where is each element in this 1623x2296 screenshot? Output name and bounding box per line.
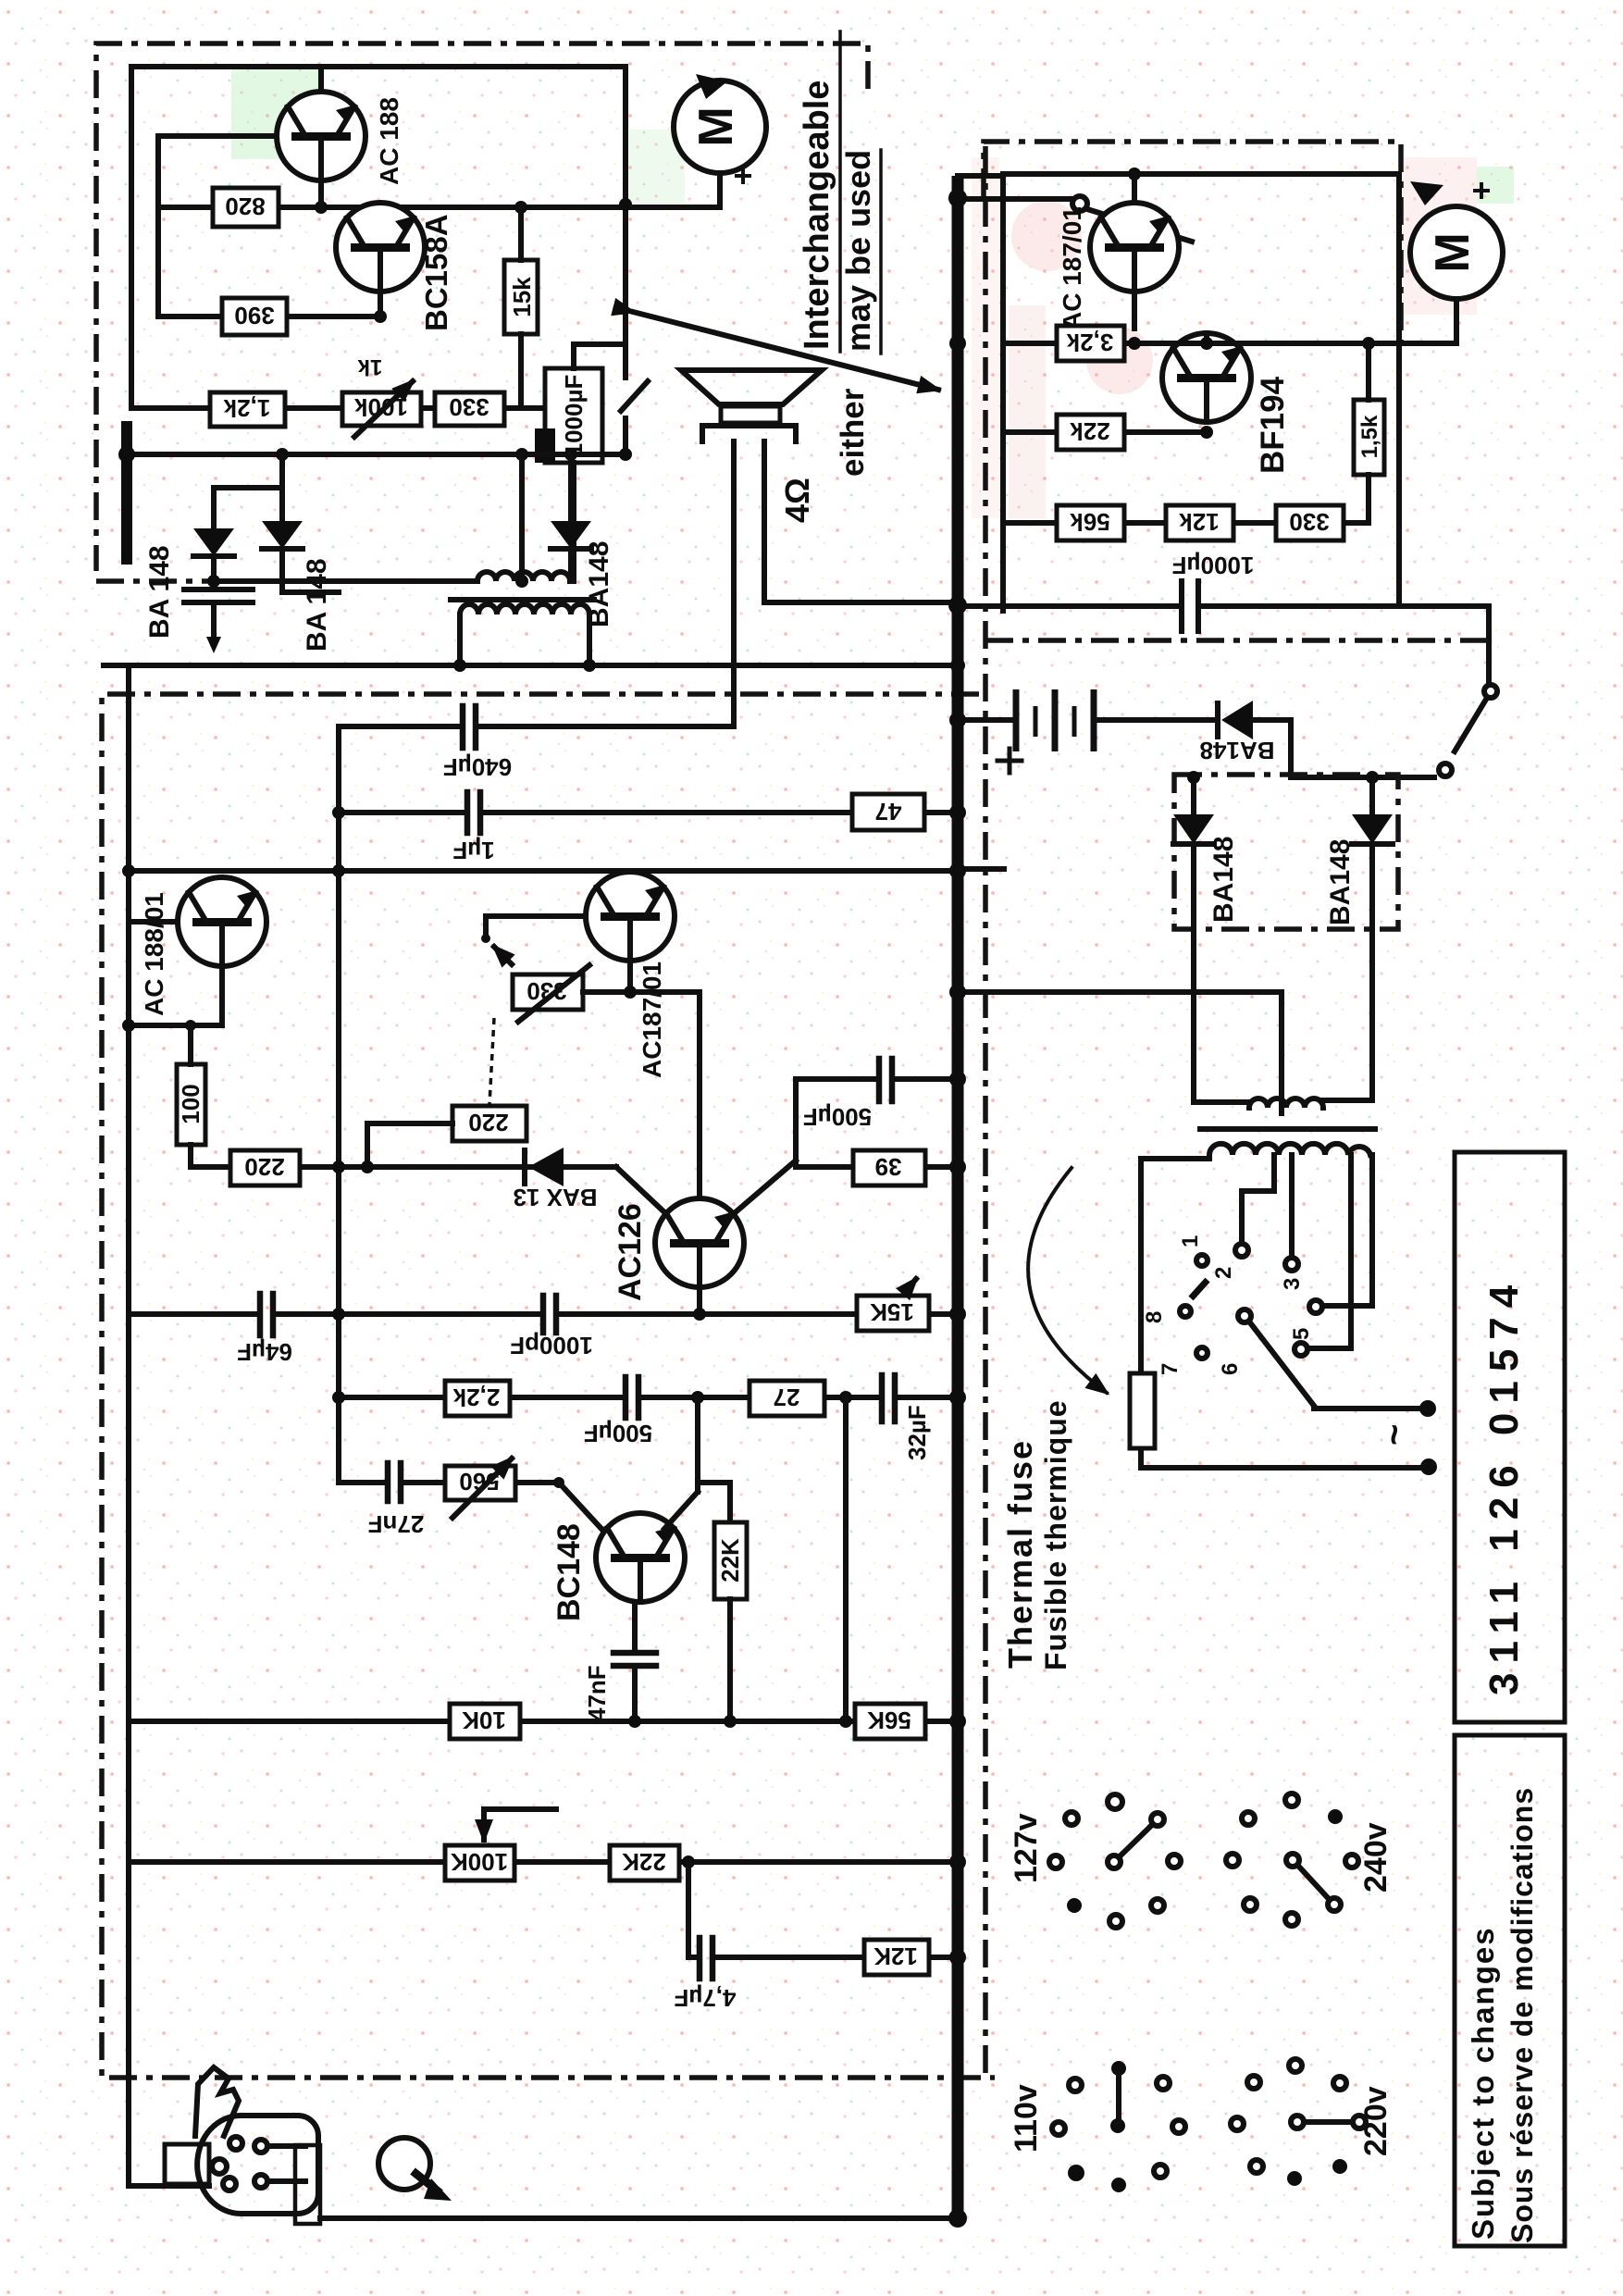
selector link 1-8 [1191, 1280, 1208, 1298]
svg-text:56k: 56k [1070, 508, 1110, 536]
wire: row y=1261 [191, 1160, 616, 1173]
label AC187/01 (T3) [1058, 206, 1086, 330]
wire: row y=1261 right + resistor 39 [796, 1164, 953, 1170]
selector contact 5 [1289, 1328, 1314, 1356]
DIN microphone connector [129, 2067, 320, 2224]
wire: row y=1860 [129, 1715, 953, 1728]
wire: bus to transformer centre tap y=1072 [962, 992, 1282, 1113]
text: Fusible thermique [1039, 1399, 1072, 1670]
text: either [835, 388, 871, 477]
svg-text:64µF: 64µF [237, 1338, 292, 1366]
svg-text:1000pF: 1000pF [510, 1332, 593, 1359]
dash-dot box around charge diodes [1174, 775, 1398, 929]
svg-text:640µF: 640µF [443, 753, 512, 781]
svg-text:7: 7 [1158, 1363, 1183, 1375]
thermal fuse pointer arc [1028, 1168, 1107, 1393]
dash-dot border: top-right motor block [984, 142, 1401, 341]
resistor 27 [750, 1381, 824, 1416]
svg-text:12k: 12k [1179, 508, 1220, 536]
diode BAX13 [513, 1148, 597, 1211]
svg-text:330: 330 [1289, 508, 1329, 536]
volume control (pot circle) [378, 2138, 452, 2201]
wire: top link of diodes y=527 [214, 454, 282, 488]
capacitor 27nF [368, 1463, 425, 1538]
svg-text:100k: 100k [354, 393, 408, 421]
svg-text:BA 148: BA 148 [302, 558, 332, 652]
label AC187/01 (T6) [638, 962, 666, 1078]
transistor T1 AC188 [277, 67, 365, 207]
wire: AC126 collector up [731, 1079, 796, 1216]
selector contact 2 [1211, 1244, 1248, 1279]
capacitor 47nF [583, 1602, 656, 1721]
diode BA148 D3 [551, 454, 591, 578]
mains transformer core [1200, 1126, 1375, 1132]
svg-text:BF194: BF194 [1255, 376, 1291, 474]
record/play switch lever [1439, 685, 1497, 776]
label BC148 (T8) [551, 1523, 587, 1621]
resistor 10K [450, 1704, 520, 1739]
svg-text:15k: 15k [508, 277, 536, 317]
label 4 ohm [778, 478, 816, 523]
label AC188/01 (T5) [140, 892, 168, 1016]
transformer (motor governor coil) [451, 572, 594, 665]
text: may be used [839, 150, 881, 354]
voltage legend 110v [1009, 2061, 1185, 2192]
wire: diag to AC126 base [616, 1167, 663, 1210]
diode BA148 D2 [262, 488, 339, 592]
svg-text:BA148: BA148 [1200, 737, 1275, 764]
voltage legend 220v [1231, 2059, 1394, 2186]
resistor 12K (amp) [864, 1940, 929, 1975]
resistor 1,2k [210, 392, 285, 427]
resistor 1,5k vertical [1354, 343, 1384, 523]
label BA148 (D5) [1208, 837, 1239, 923]
transistor T2 BC158A [336, 203, 425, 316]
svg-text:Fusible thermique: Fusible thermique [1039, 1399, 1072, 1670]
wire: y=1108 emitter row [122, 1019, 222, 1032]
capacitor 500uF (a) [803, 1059, 892, 1131]
wire: row y=878 to bus [332, 806, 953, 819]
box: 3111 126 01574 [1455, 1152, 1565, 1722]
label BA148 (D3) [584, 541, 614, 627]
svg-text:AC 187/01: AC 187/01 [1058, 206, 1086, 330]
wire: diode to switch wire [1291, 720, 1434, 777]
resistor 22K vertical [714, 1522, 747, 1721]
svg-text:22K: 22K [622, 1848, 666, 1876]
wire: x=744 vertical [686, 1862, 691, 1957]
trimmer arrow + dot [481, 916, 586, 964]
wire: row y=224 (820 row to motor) [158, 201, 720, 214]
svg-text:2: 2 [1211, 1267, 1236, 1279]
resistor 820 [213, 188, 279, 227]
svg-text:1k: 1k [357, 354, 382, 379]
text: Interchangeable [798, 31, 840, 352]
resistor 2,2k [445, 1381, 510, 1416]
svg-text:BA148: BA148 [1208, 837, 1239, 923]
svg-text:240v: 240v [1358, 1822, 1394, 1893]
svg-text:27: 27 [774, 1384, 800, 1411]
svg-text:BC148: BC148 [551, 1523, 587, 1621]
motor M1 [674, 74, 766, 205]
svg-text:390: 390 [234, 302, 274, 329]
resistor 56K (amp) [855, 1704, 925, 1739]
svg-text:56K: 56K [867, 1706, 911, 1734]
capacitor 64uF [237, 1294, 292, 1366]
resistor 3,2k [1057, 326, 1124, 361]
selector contact 6 [1218, 1309, 1251, 1375]
label AC188 (T1) [375, 97, 403, 185]
label BA148 (D6) [1325, 839, 1356, 925]
svg-text:BAX 13: BAX 13 [513, 1184, 597, 1211]
svg-text:BA148: BA148 [1325, 839, 1356, 925]
diode BA148 D6 [1352, 771, 1393, 929]
svg-text:1000µF: 1000µF [1172, 552, 1255, 579]
wire: diode legs down to mains transformer [1194, 929, 1372, 1102]
voltage selector block border + taps [1141, 1155, 1372, 1468]
wire: row y=371 (to motor M2) [1003, 337, 1456, 350]
interchange arrow (double headed) [633, 312, 938, 390]
svg-text:1,2k: 1,2k [223, 394, 270, 422]
resistor 47 [852, 794, 924, 830]
solid border: top-left block (left + top edge) [131, 67, 626, 408]
svg-text:15K: 15K [870, 1298, 914, 1326]
wire: row y=565 [1003, 520, 1369, 526]
svg-text:Thermal fuse: Thermal fuse [1001, 1439, 1039, 1669]
svg-text:4Ω: 4Ω [778, 478, 816, 523]
dash-dot border: bottom of top-right motor block [985, 638, 1490, 643]
wire: x=914 vertical [843, 1397, 849, 1721]
svg-text:~: ~ [1374, 1424, 1415, 1446]
dash-dot separator x=1065 [983, 146, 988, 2078]
resistor 12k [1166, 505, 1233, 540]
resistor 220 (b) [367, 1106, 527, 1167]
capacitor 1000pF [510, 1296, 593, 1359]
wire: top rail y=188 inside right block [1128, 168, 1141, 180]
svg-text:6: 6 [1218, 1363, 1243, 1375]
capacitor 1000uF (motor block) [1172, 552, 1255, 631]
svg-text:Subject to changes: Subject to changes [1466, 1926, 1500, 2240]
wire: row y=342 (390 row) [158, 310, 387, 323]
capacitor 32uF [882, 1375, 931, 1460]
capacitor 4,7uF [674, 1938, 736, 2012]
speaker 4ohm [681, 370, 953, 726]
wire: row y=2012 [129, 1855, 953, 1868]
wire: long rail y=719 [104, 659, 953, 672]
svg-text:22k: 22k [1070, 417, 1110, 445]
resistor 330 (motor block) [1276, 505, 1344, 540]
resistor 56k [1057, 505, 1124, 540]
battery [962, 689, 1214, 773]
wire: vertical x=366 [336, 726, 341, 1483]
resistor 22K (b amp) [610, 1845, 679, 1880]
thermal fuse [1130, 1373, 1155, 1448]
box: subject to changes [1455, 1735, 1565, 2246]
svg-text:4,7µF: 4,7µF [674, 1984, 736, 2012]
svg-text:1000µF: 1000µF [560, 375, 588, 457]
svg-text:3111 126 01574: 3111 126 01574 [1481, 1276, 1527, 1695]
wire: bottom rail y=2397 [320, 2215, 953, 2221]
svg-text:22K: 22K [716, 1538, 744, 1582]
resistor 390 [222, 298, 287, 335]
svg-text:47: 47 [875, 798, 902, 825]
svg-text:100K: 100K [451, 1848, 508, 1876]
potentiometer 100k (bottom row) [342, 354, 421, 437]
voltage legend 240v [1226, 1793, 1394, 1926]
wire: row y=1420 [129, 1308, 953, 1321]
feedback arrow into 100K [484, 1809, 556, 1840]
svg-text:100: 100 [177, 1084, 204, 1123]
wire: rail y=628 to oscillator coil [207, 575, 528, 588]
wire: to mains terminal (upper) [1314, 1400, 1436, 1417]
diode BA148 D5 [1173, 771, 1214, 929]
resistor 330 (top-left block) [435, 392, 504, 426]
selector contact 7 [1158, 1347, 1208, 1375]
svg-text:5: 5 [1289, 1328, 1314, 1340]
svg-text:AC 188/01: AC 188/01 [140, 892, 168, 1016]
dash-dot border: amplifier block [102, 694, 995, 2078]
svg-text:M: M [689, 106, 743, 146]
label AC126 (T7) [613, 1203, 648, 1301]
wire: bus to record switch (y=215) with contact [962, 196, 1192, 242]
transistor T7 AC126 [655, 1198, 744, 1287]
potentiometer 100K (volume) [445, 1845, 514, 1880]
capacitor 1000uF (electrolytic, top-left block) [535, 344, 626, 581]
diode BA148 D1 [184, 488, 253, 653]
svg-text:2,2k: 2,2k [452, 1384, 500, 1411]
diode BA148 D4 (horizontal) [1200, 701, 1291, 764]
selector lever [1249, 1322, 1314, 1406]
wire: row y=2115 [688, 1955, 953, 1960]
svg-text:BC158A: BC158A [419, 214, 453, 331]
selector contact 8 [1142, 1306, 1191, 1323]
resistor 100 vertical [177, 1025, 205, 1167]
wire: left rail x=139 [126, 665, 131, 2186]
transistor T8 BC148 [596, 1513, 685, 1602]
svg-text:12K: 12K [873, 1942, 918, 1970]
potentiometer 330 (amp) [513, 965, 589, 1022]
resistor 220 (a) [230, 1150, 300, 1185]
selector contact 1 [1178, 1235, 1208, 1266]
svg-text:BA 148: BA 148 [144, 545, 175, 639]
svg-text:3: 3 [1280, 1278, 1305, 1290]
svg-text:may be used: may be used [839, 150, 877, 352]
wire: right vertical x=676 of block [619, 67, 632, 365]
svg-text:M: M [1426, 232, 1480, 272]
svg-text:32µF: 32µF [903, 1405, 931, 1460]
svg-text:127v: 127v [1009, 1813, 1044, 1883]
wire: base feed y=147 to transistor T1 [158, 133, 279, 139]
wire: emitter rail y=491 [118, 446, 632, 463]
wire: speaker coupling row y=785 [339, 724, 734, 729]
mains transformer primary [1249, 1098, 1372, 1108]
voltage legend 127v [1009, 1794, 1181, 1928]
mains transformer secondary [1209, 1144, 1370, 1155]
svg-text:500µF: 500µF [803, 1103, 872, 1131]
wire: vertical x=564 to coil [519, 454, 525, 581]
main supply bus [958, 176, 1003, 2221]
svg-text:220: 220 [244, 1153, 284, 1181]
svg-text:either: either [835, 388, 871, 477]
wire: bus stub y=939 [962, 866, 1004, 872]
wire: row y=467 [1003, 426, 1213, 439]
text: Thermal fuse [1001, 1439, 1039, 1669]
svg-text:500µF: 500µF [584, 1420, 652, 1447]
label BF194 (T4) [1255, 376, 1291, 474]
svg-text:330: 330 [449, 393, 489, 421]
resistor 15K [857, 1279, 929, 1331]
wire: row y=1510 [332, 1391, 953, 1404]
transistor T3 AC187/01 (motor block) [1090, 174, 1179, 329]
wire: row y=1602 [339, 1477, 601, 1529]
bus junction dots [948, 189, 967, 2228]
capacitor 500uF (b) [584, 1377, 652, 1447]
wire: to mains terminal (lower) [1340, 1458, 1437, 1475]
resistor 39 [853, 1150, 925, 1185]
dash-dot border: top-left motor regulator block [96, 43, 868, 581]
wire: row y=1072 [583, 986, 700, 999]
selector contact 3 [1280, 1258, 1305, 1290]
svg-text:Interchangeable: Interchangeable [798, 81, 836, 350]
switch (motor run contact) [621, 365, 648, 454]
wire: AC126 emitter to row y=1420 [697, 1287, 702, 1314]
transistor T6 AC187/01 (amp) [586, 872, 675, 992]
resistor 22k (motor block) [1057, 415, 1124, 450]
svg-text:10K: 10K [462, 1706, 506, 1734]
capacitor 1uF [452, 792, 494, 864]
svg-text:27nF: 27nF [368, 1510, 425, 1538]
svg-text:AC126: AC126 [613, 1203, 648, 1301]
resistor 15k vertical [504, 207, 538, 408]
transistor T5 AC188/01 (amp) [129, 877, 266, 1025]
motor M2 [1410, 181, 1503, 343]
wire: bottom rail y=655 of motor block [962, 606, 1489, 686]
dashed wiper link [489, 1018, 494, 1104]
potentiometer 560 [445, 1458, 515, 1518]
svg-text:1µF: 1µF [452, 837, 494, 864]
label BA148 (D2) [302, 558, 332, 652]
svg-text:220: 220 [468, 1109, 508, 1136]
svg-text:Sous réserve de modifications: Sous réserve de modifications [1505, 1787, 1539, 2243]
solid border: top-right block [1003, 174, 1399, 611]
wire: rail y=941 to bus [122, 864, 953, 877]
wire: row y=1166 (500uF a) [796, 1076, 953, 1082]
wire: x=756 down to AC126 [697, 992, 702, 1198]
svg-text:47nF: 47nF [583, 1665, 611, 1721]
wire: left inner rail x=171 [155, 136, 161, 316]
svg-text:AC 188: AC 188 [375, 97, 403, 185]
svg-text:39: 39 [875, 1153, 902, 1181]
transistor T4 BF194 [1162, 333, 1251, 422]
svg-text:110v: 110v [1009, 2084, 1044, 2153]
svg-text:1,5k: 1,5k [1357, 415, 1382, 458]
svg-text:3,2k: 3,2k [1066, 329, 1113, 356]
svg-text:8: 8 [1142, 1311, 1167, 1323]
wire: BC148 collector up [664, 1397, 730, 1529]
capacitor 640uF [443, 706, 512, 781]
label BC158A (T2) [419, 214, 453, 331]
wire: row y=441 (bottom bias row) [131, 405, 545, 411]
label BA148 (D1) [144, 545, 175, 639]
svg-text:820: 820 [225, 192, 265, 220]
svg-text:1: 1 [1178, 1235, 1203, 1247]
text: ~ mains [1374, 1424, 1415, 1446]
svg-text:AC187/01: AC187/01 [638, 962, 666, 1078]
chassis bar (thick) left side [121, 421, 132, 565]
selector contact 4 [1309, 1300, 1322, 1313]
